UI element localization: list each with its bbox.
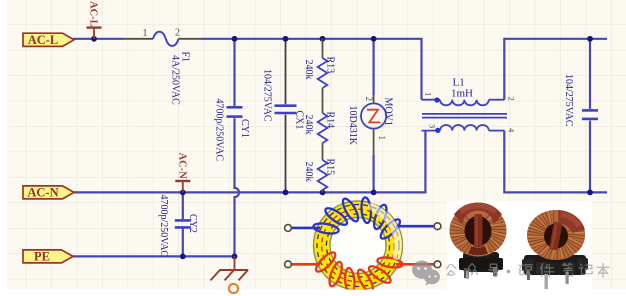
toroid terminal right red <box>434 261 441 268</box>
wire: top rail AC-L from port to fuse <box>73 38 124 40</box>
toroid drawing: blue winding lead left <box>290 227 320 230</box>
wire: bottom rail AC-N from port to L1 pin3 corner (with hop over CY1 branch) <box>73 131 425 193</box>
svg-text:4A/250VAC: 4A/250VAC <box>170 55 181 105</box>
wire: right bottom rail from L1 pin4 down and right <box>504 131 607 193</box>
capacitor 104/275VAC (output X-cap) <box>582 110 598 119</box>
toroid drawing: red winding loops <box>313 250 403 295</box>
svg-text:2: 2 <box>507 97 517 101</box>
wire: PE rail <box>72 255 235 257</box>
svg-text:F1: F1 <box>180 52 191 63</box>
junction top of MOV1 <box>371 36 377 42</box>
wire: right X-cap vertical branch <box>589 39 591 193</box>
svg-text:1: 1 <box>424 92 434 96</box>
photo: choke sample 1 (front view) <box>450 202 507 279</box>
svg-text:R13: R13 <box>324 57 335 74</box>
earth ground symbol <box>211 256 249 280</box>
wire: MOV1 vertical branch upper <box>373 39 375 95</box>
svg-text:1: 1 <box>143 28 148 39</box>
svg-text:4700p/250VAC: 4700p/250VAC <box>158 195 169 258</box>
junction top of right X-cap <box>587 36 593 42</box>
toroid drawing: yellow core <box>314 201 403 290</box>
junction bottom of MOV1 <box>371 190 377 196</box>
svg-text:104/275VAC: 104/275VAC <box>261 69 272 122</box>
capacitor CX1 <box>275 106 297 113</box>
svg-text:AC-N: AC-N <box>27 186 58 200</box>
svg-text:CY2: CY2 <box>187 214 198 233</box>
power port net AC-N (red bar symbol) <box>175 153 190 193</box>
watermark: wechat logo <box>412 261 440 286</box>
svg-text:R15: R15 <box>324 159 335 176</box>
toroid terminal left blue <box>285 225 292 232</box>
svg-text:AC-L: AC-L <box>88 1 99 27</box>
junction AC-N net label / CY2 <box>180 190 186 196</box>
junction CY2 on PE rail <box>180 254 186 260</box>
wire: CY1 vertical branch (hops over AC-N rail) <box>235 39 240 257</box>
svg-text:4700p/250VAC: 4700p/250VAC <box>214 99 225 162</box>
svg-text:2: 2 <box>175 28 180 39</box>
fuse F1 <box>124 32 201 46</box>
wire: top rail from fuse to L1 corner, bend down to L1 pin1 <box>201 39 422 100</box>
common-mode choke L1 <box>422 97 508 133</box>
photo panel (white background) <box>447 201 592 290</box>
toroid drawing: blue winding loops <box>313 197 403 242</box>
junction top of CX1 <box>283 36 289 42</box>
junction CY1 / ground on PE rail <box>232 254 238 260</box>
svg-text:1: 1 <box>377 136 387 141</box>
toroid drawing: blue winding lead right <box>396 225 435 228</box>
white strip left <box>0 0 7 296</box>
watermark: text 公众号·硬件笔记本 (vector strokes) <box>446 264 609 278</box>
toroid terminal right blue <box>434 223 441 230</box>
svg-text:AC-N: AC-N <box>176 153 187 180</box>
svg-text:240k: 240k <box>303 60 314 80</box>
wire: right top rail from L1 pin2 up and right <box>504 39 607 100</box>
svg-text:240k: 240k <box>303 162 314 182</box>
svg-text:3: 3 <box>428 124 438 128</box>
toroid drawing: glossy highlight <box>372 207 398 257</box>
port PE <box>23 250 73 264</box>
junction bottom of CX1 <box>283 190 289 196</box>
svg-text:AC-L: AC-L <box>28 33 59 47</box>
svg-text:240k: 240k <box>303 115 314 135</box>
junction bottom of R15 <box>320 190 326 196</box>
svg-text:104/275VAC: 104/275VAC <box>563 74 574 127</box>
photo: choke sample 2 (angled view) <box>522 210 588 289</box>
wire: CX1 vertical branch <box>285 39 287 193</box>
junction bottom of right X-cap <box>587 190 593 196</box>
junction top of R13 <box>320 36 326 42</box>
svg-text:MOV1: MOV1 <box>382 98 393 126</box>
svg-text:1mH: 1mH <box>451 88 473 100</box>
white strip bottom <box>0 290 626 296</box>
toroid drawing: red winding lead right <box>396 263 435 266</box>
capacitor CY2 <box>175 220 191 227</box>
toroid drawing: red winding lead left <box>290 263 320 266</box>
toroid terminal left red <box>285 261 292 268</box>
varistor MOV1 <box>361 95 386 155</box>
resistor R14 <box>318 113 328 160</box>
capacitor CY1 <box>227 107 243 116</box>
resistor R15 <box>318 160 328 192</box>
resistor R13 <box>318 39 328 113</box>
watermark: small orange circle logo near ground <box>229 284 238 293</box>
port AC-N <box>23 186 74 200</box>
svg-text:CY1: CY1 <box>239 119 250 138</box>
svg-text:2: 2 <box>364 97 374 102</box>
junction at AC-L net label <box>91 36 97 42</box>
wire: MOV1 vertical branch lower <box>373 155 375 192</box>
junction top of CY1 <box>232 36 238 42</box>
wire: CY2 vertical branch <box>182 192 184 256</box>
port AC-L <box>23 33 74 47</box>
svg-text:R14: R14 <box>324 112 335 129</box>
svg-text:10D431K: 10D431K <box>347 106 358 146</box>
svg-text:PE: PE <box>34 250 50 264</box>
power port net AC-L (red bar symbol) <box>87 1 102 39</box>
